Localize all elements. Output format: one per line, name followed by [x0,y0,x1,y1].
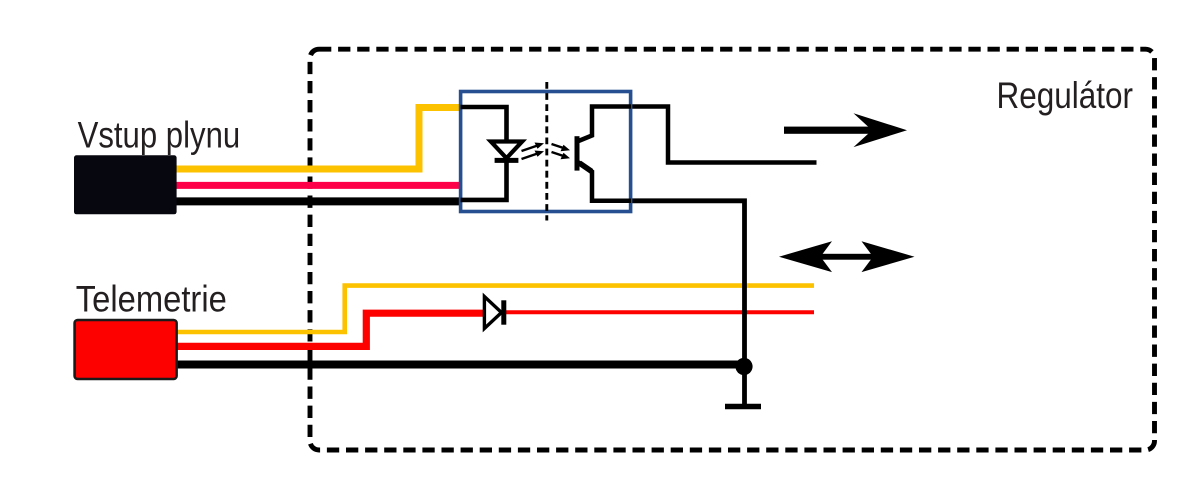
opto phototransistor emitter arrow (thick diagonal) [580,163,592,171]
wire: black ground (bottom, thick) [177,361,741,369]
arrow: bidirectional telemetry [779,241,915,272]
wire: yellow throttle signal (top) [176,108,461,170]
connector block: Vstup plynu (black) [74,155,177,214]
wire: telemetry yellow [177,286,814,332]
wire: telemetry red thin segment after diode [505,310,814,314]
opto LED cathode wire [461,160,507,200]
connector block: Telemetrie (red) [75,320,177,379]
dashed enclosure Regulátor [310,49,1155,450]
opto LED triangle [491,142,522,159]
wire: opto output bottom to ground rail [631,201,745,404]
wire: pink signal (top) [176,182,460,189]
opto isolation dash line [545,82,548,221]
diode D1 on red telemetry wire [484,297,503,329]
junction node [735,358,752,375]
svg-text:Telemetrie: Telemetrie [76,277,227,319]
opto phototransistor base bar [575,136,580,170]
wire: black ground (top) [176,197,460,205]
opto light arrow upper-left [522,143,545,152]
svg-text:Regulátor: Regulátor [997,74,1134,116]
opto phototransistor emitter [579,162,632,200]
wire: opto output top [631,107,817,163]
opto light arrow lower-right [552,152,571,159]
opto light arrow lower-left [522,151,545,160]
wire: telemetry red thick segment [177,313,483,346]
optocoupler U1 body [461,92,631,212]
opto phototransistor collector [579,107,632,142]
svg-text:Vstup plynu: Vstup plynu [78,114,241,156]
opto LED anode wire [461,107,507,142]
arrow: output signal (single, right) [784,113,907,147]
ground symbol [725,404,761,409]
opto LED cathode bar [495,158,519,163]
opto light arrow upper-right [552,144,571,151]
